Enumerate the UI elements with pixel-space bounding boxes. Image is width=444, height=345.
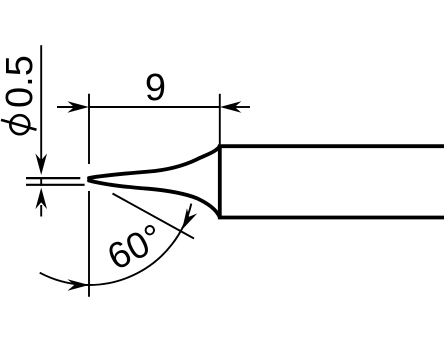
tip lower profile curve	[89, 181, 220, 218]
angle leg diagonal line	[113, 194, 195, 239]
svg-text:0.5: 0.5	[0, 55, 41, 108]
tip end face lower line (0.5 thickness)	[26, 184, 85, 186]
extension line right (x=219.8)	[219, 94, 221, 145]
tip body outline	[220, 146, 444, 217]
tick between tip faces	[40, 177, 42, 186]
angle arc r=105	[40, 204, 192, 285]
tip end face upper line (0.5 thickness)	[26, 177, 80, 179]
svg-text:60°: 60°	[101, 216, 169, 278]
svg-text:9: 9	[145, 67, 166, 109]
right outside arrow of dim 9	[234, 106, 250, 108]
arc arrow on vertical leg	[68, 279, 90, 291]
up arrow of phi dim	[35, 188, 47, 210]
phi symbol circle	[10, 115, 29, 134]
phi symbol slash	[1, 120, 37, 130]
extension line left (x=89)	[88, 94, 90, 297]
tip upper profile curve	[89, 146, 220, 178]
left outside arrow of dim 9	[57, 106, 74, 108]
arc arrow on diagonal leg	[177, 208, 197, 232]
dim line for 9	[89, 106, 220, 108]
text 60 degrees	[101, 216, 169, 278]
phi dim vertical line with down arrow	[40, 45, 42, 162]
